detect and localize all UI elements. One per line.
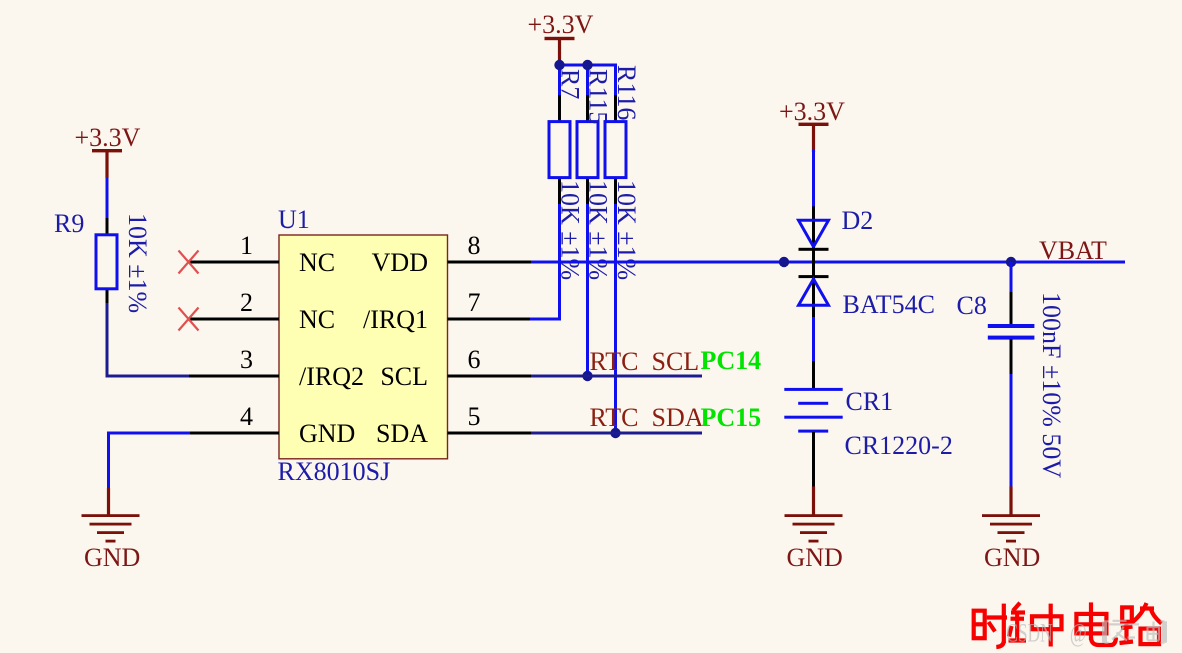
svg-text:CSDN: CSDN (1006, 619, 1053, 648)
pin 2 NC (189, 288, 335, 334)
svg-text:R9: R9 (54, 209, 84, 238)
ground GND (left) (82, 488, 141, 572)
resistor R9 (96, 218, 117, 304)
pin 7 /IRQ1 (363, 288, 531, 334)
svg-text:RTC SCL: RTC SCL (590, 347, 700, 376)
svg-text:R115: R115 (584, 69, 613, 124)
IC U1 body (279, 235, 448, 459)
ground GND (C8) (982, 486, 1040, 572)
wire R9 to pin 3 (107, 303, 190, 376)
svg-text:/IRQ1: /IRQ1 (363, 305, 428, 334)
pin 3 /IRQ2 (189, 345, 364, 391)
svg-text:R116: R116 (612, 65, 641, 120)
svg-text:RTC SDA: RTC SDA (590, 403, 704, 432)
wire RTC_SDA stub (531, 432, 702, 435)
wire VBAT to C8 (1010, 262, 1013, 294)
svg-text:U1: U1 (278, 205, 310, 234)
wire VDD / VBAT net (531, 261, 1125, 264)
svg-text:VDD: VDD (372, 248, 428, 277)
svg-text:3: 3 (240, 345, 253, 374)
svg-text:7: 7 (468, 288, 481, 317)
pin 6 SCL (380, 345, 531, 391)
svg-text:CR1: CR1 (846, 387, 894, 416)
pin 8 VDD (372, 231, 531, 277)
watermark CSDN (1006, 619, 1164, 648)
svg-text:SDA: SDA (376, 419, 428, 448)
svg-text:1: 1 (240, 231, 253, 260)
svg-text:R7: R7 (556, 69, 585, 99)
svg-text:2: 2 (240, 288, 253, 317)
wire pin 4 to ground (109, 433, 191, 490)
power +3.3V (top, pull-up rail) (528, 10, 594, 66)
wire R115 to RTC_SCL (586, 204, 589, 376)
junction at C8 branch (1006, 257, 1016, 267)
no-connect X on pin 2 (179, 308, 199, 331)
svg-text:GND: GND (84, 543, 140, 572)
junction R115 on SCL (582, 371, 592, 381)
svg-text:VBAT: VBAT (1039, 236, 1107, 265)
power +3.3V (left, R9 pull-up) (75, 123, 141, 178)
pin 4 GND (189, 402, 355, 448)
battery CR1 (784, 361, 842, 488)
svg-text:PC14: PC14 (701, 346, 762, 375)
svg-text:/IRQ2: /IRQ2 (299, 362, 364, 391)
svg-text:BAT54C: BAT54C (843, 290, 935, 319)
svg-text:RX8010SJ: RX8010SJ (278, 457, 391, 486)
svg-text:+3.3V: +3.3V (528, 10, 594, 39)
svg-text:4: 4 (240, 402, 253, 431)
wire C8 to ground (1010, 374, 1013, 488)
junction at R115 top (582, 60, 592, 70)
ground GND (battery) (785, 486, 843, 572)
svg-text:D2: D2 (842, 206, 874, 235)
svg-text:+3.3V: +3.3V (75, 123, 141, 152)
svg-text:100nF ±10% 50V: 100nF ±10% 50V (1037, 292, 1066, 478)
svg-text:CR1220-2: CR1220-2 (845, 431, 953, 460)
svg-text:8: 8 (468, 231, 481, 260)
svg-text:NC: NC (299, 248, 335, 277)
wire RTC_SCL stub (531, 375, 702, 378)
resistor R116 (605, 95, 626, 205)
svg-text:GND: GND (787, 543, 843, 572)
wire +3.3V to R9 (106, 178, 109, 219)
svg-text:GND: GND (984, 543, 1040, 572)
wire D2 to battery (812, 317, 815, 362)
junction at R7 top (554, 60, 564, 70)
title 时钟电路 (clock circuit) (974, 602, 1162, 647)
wire +3.3V to D2 (812, 150, 815, 208)
junction R116 on SDA (610, 428, 620, 438)
junction on VBAT near D2 (779, 257, 789, 267)
svg-text:GND: GND (299, 419, 355, 448)
power +3.3V (right, battery branch) (779, 97, 845, 152)
no-connect X on pin 1 (179, 251, 199, 274)
路 (1122, 607, 1132, 621)
wire +3.3V rail to R7 R115 R116 (560, 64, 616, 97)
svg-text:+3.3V: +3.3V (779, 97, 845, 126)
svg-text:PC15: PC15 (701, 403, 762, 432)
svg-text:@: @ (1070, 619, 1087, 648)
wire R7 to pin 7 (530, 204, 560, 319)
时 (974, 611, 985, 639)
电 (1076, 614, 1106, 634)
capacitor C8 (988, 292, 1035, 375)
svg-text:SCL: SCL (380, 362, 428, 391)
svg-text:10K ±1%: 10K ±1% (123, 213, 152, 313)
resistor R115 (577, 95, 598, 205)
svg-text:5: 5 (468, 402, 481, 431)
resistor R7 (549, 95, 570, 205)
pin 5 SDA (376, 402, 531, 448)
diode D2 (BAT54C dual schottky) (799, 206, 829, 318)
svg-text:6: 6 (468, 345, 481, 374)
pin 1 NC (189, 231, 335, 277)
wire R116 to RTC_SDA (614, 204, 617, 433)
svg-text:C8: C8 (957, 291, 987, 320)
svg-text:NC: NC (299, 305, 335, 334)
钟 (1013, 603, 1020, 611)
